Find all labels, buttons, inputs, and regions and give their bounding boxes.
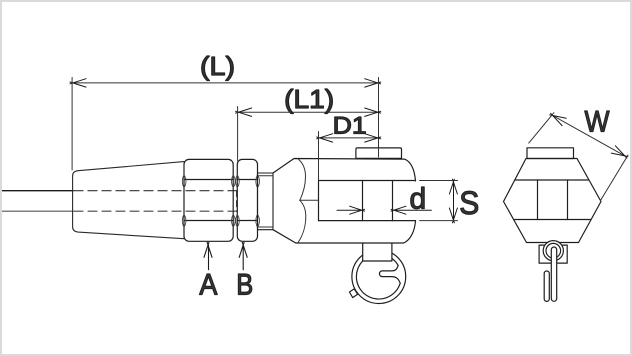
hex B chamfer lens right-upper — [256, 175, 260, 188]
dimension d leader right — [391, 206, 431, 214]
end view slot left line — [537, 180, 539, 220]
clevis pin lower end — [363, 242, 392, 261]
dimension (L) line — [72, 82, 379, 84]
collar inner line bottom — [258, 226, 274, 228]
clevis pin shank right — [392, 181, 394, 221]
hidden hole dashed line top — [74, 190, 237, 192]
svg-text:d: d — [409, 183, 426, 216]
swage sleeve — [73, 162, 184, 239]
split ring outer — [352, 250, 406, 304]
svg-text:(L1): (L1) — [284, 86, 334, 114]
dimension (L) ext line right — [378, 78, 380, 158]
hex B chamfer lens right-lower — [256, 215, 260, 228]
svg-text:A: A — [199, 269, 217, 302]
dimension S arrow line — [449, 179, 457, 223]
fork bottom lobe arc — [298, 200, 306, 242]
hidden hole end dashed — [236, 191, 238, 212]
dimension (L) arrow right — [365, 79, 381, 87]
hex section B body — [237, 159, 257, 241]
clevis pin lower end outline — [363, 244, 392, 262]
hex A chamfer lens right-lower — [232, 215, 236, 228]
end view pin head — [527, 148, 574, 159]
clevis pin shank left — [362, 181, 364, 221]
dimension (L1) ext line left — [237, 107, 239, 162]
fork top lobe arc — [299, 159, 306, 200]
fork slot top line — [319, 180, 416, 182]
fork mid line — [300, 199, 319, 201]
cotter pin leg right — [551, 247, 556, 301]
dimension S ext line top — [420, 180, 458, 182]
dimension D1 arrow left — [317, 134, 333, 142]
fork outline top — [273, 159, 416, 182]
clevis pin head — [356, 148, 402, 159]
hidden hole dashed line bottom — [74, 210, 237, 212]
end view lower chord — [515, 219, 591, 221]
dimension D1 line — [319, 137, 379, 139]
dimension (L) ext line left — [71, 78, 73, 171]
cotter ring outer — [543, 241, 563, 261]
collar — [258, 173, 274, 230]
cotter pin leg left — [544, 271, 549, 301]
hex B chamfer lens left-upper — [236, 175, 240, 188]
dimension (L1) arrow right — [365, 108, 381, 116]
dimension (L1) line — [238, 111, 379, 113]
hex A flat line lower — [184, 220, 233, 222]
hex A flat line upper — [184, 179, 233, 181]
label A arrow — [204, 242, 212, 269]
dimension S ext line bottom — [420, 220, 458, 222]
dimension W arrow upper — [550, 113, 567, 125]
dimension W line — [552, 115, 626, 156]
label B arrow — [239, 242, 247, 269]
dimension (L) arrow left — [70, 79, 86, 87]
dimension W arrow lower — [611, 146, 628, 158]
end view hexagon — [504, 159, 602, 243]
dimension W ext line right — [601, 155, 629, 200]
dimension (L1) arrow left — [236, 108, 252, 116]
split ring tab — [349, 289, 357, 298]
dimension D1 ext line left — [318, 132, 320, 181]
hex B chamfer lens left-lower — [236, 215, 240, 228]
cotter ring inner — [546, 243, 561, 258]
hex B flat line lower — [237, 220, 257, 222]
end view upper chord — [515, 179, 589, 181]
fork slot bottom line — [319, 220, 416, 222]
fork outline bottom — [273, 221, 416, 243]
wire rope bottom line — [2, 210, 73, 212]
hex A chamfer lens right-upper — [232, 175, 236, 188]
split ring inner — [356, 254, 400, 299]
fork slot end — [318, 181, 320, 221]
hex A chamfer lens left-lower — [182, 215, 186, 228]
collar inner line top — [258, 175, 274, 177]
svg-text:(L): (L) — [200, 53, 235, 81]
hex A chamfer lens left-upper — [182, 175, 186, 188]
dimension W ext line left — [529, 113, 554, 143]
end view slot right line — [567, 180, 569, 220]
hex B flat line upper — [237, 179, 257, 181]
dimension D1 arrow right — [365, 134, 381, 142]
svg-text:S: S — [459, 185, 479, 221]
hex section A body — [184, 159, 233, 241]
svg-text:D1: D1 — [333, 112, 367, 139]
dimension d leader left — [337, 206, 365, 214]
svg-text:B: B — [236, 269, 253, 302]
wire rope top line — [2, 190, 73, 192]
svg-text:W: W — [585, 106, 611, 139]
end view pin lower block — [539, 245, 567, 263]
split ring end curl — [379, 265, 400, 283]
